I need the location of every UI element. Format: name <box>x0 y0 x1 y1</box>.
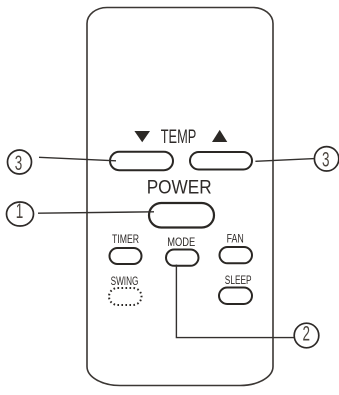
svg-text:3: 3 <box>322 147 330 171</box>
temp up button <box>190 152 252 170</box>
mode button <box>166 250 199 266</box>
svg-text:TEMP: TEMP <box>161 126 197 148</box>
callout circle 3 (right) <box>314 147 338 171</box>
leader line circle3-left to temp down button <box>39 157 116 161</box>
svg-text:SWING: SWING <box>111 274 139 288</box>
svg-text:POWER: POWER <box>147 177 212 199</box>
svg-text:3: 3 <box>15 151 23 175</box>
temp down triangle <box>134 131 150 142</box>
swing button (dotted) <box>109 288 142 305</box>
leader line temp up button to circle3-right <box>255 159 314 162</box>
sleep button <box>219 288 252 305</box>
svg-text:TIMER: TIMER <box>112 232 139 246</box>
timer button <box>110 248 142 264</box>
power button <box>149 203 214 228</box>
callout circle 3 (left) <box>8 150 32 174</box>
svg-text:1: 1 <box>16 199 24 223</box>
leader line mode button to circle 2 <box>176 265 294 338</box>
svg-text:MODE: MODE <box>167 235 195 249</box>
remote body <box>87 8 273 386</box>
fan button <box>220 247 253 263</box>
temp up triangle <box>212 130 227 142</box>
temp down button <box>110 152 173 170</box>
svg-text:SLEEP: SLEEP <box>225 273 252 287</box>
leader line circle1 to power button <box>38 212 154 213</box>
svg-text:FAN: FAN <box>227 232 244 246</box>
callout circle 2 <box>294 323 319 348</box>
callout circle 1 <box>7 202 34 226</box>
svg-text:2: 2 <box>303 322 311 346</box>
